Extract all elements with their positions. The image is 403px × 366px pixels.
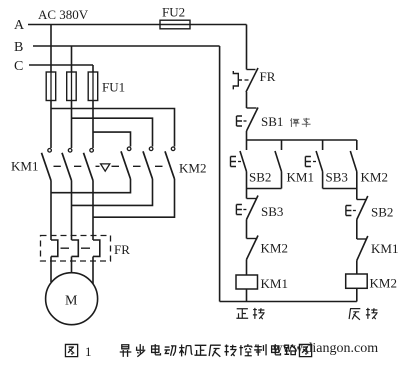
svg-text:SB2: SB2	[249, 170, 271, 185]
coil KM2	[346, 274, 368, 288]
caption 制	[254, 344, 266, 356]
wire KM1 aux down	[281, 172, 283, 189]
SB1 actuator E	[237, 116, 243, 126]
wire tap A to KM2 pole3	[51, 109, 175, 147]
mechanical linkage dashes	[54, 165, 163, 167]
merge branch2	[323, 188, 357, 190]
caption 正	[194, 345, 206, 355]
wire SB3 NC to KM2 NC	[246, 220, 248, 239]
wire KM1 pole1 down	[50, 181, 52, 241]
wire KM2 pole3 crossover to C-out	[93, 179, 175, 217]
motor M circle	[46, 273, 98, 325]
wire line C	[29, 64, 93, 66]
caption 异	[120, 344, 312, 357]
FR actuator bracket	[233, 71, 242, 89]
thermal relay FR dashed box	[41, 236, 111, 262]
wire line A	[28, 24, 247, 26]
FR heater element 1	[51, 240, 58, 256]
svg-text:KM1: KM1	[371, 241, 398, 256]
wire SB2 NC to KM1 NC	[356, 220, 358, 240]
KM2 pole2 contact	[149, 147, 153, 151]
wire FR to SB1	[246, 92, 248, 108]
wire tap C to KM2 pole1	[93, 132, 131, 146]
KM1 pole2 contact	[68, 149, 72, 153]
wire KM2 NC to coil KM1	[246, 260, 248, 276]
wire KM2 aux down	[356, 172, 358, 189]
svg-text:M: M	[65, 294, 78, 309]
caption 图	[65, 344, 77, 356]
wire line B	[33, 45, 220, 47]
wire phase A to KM1 pole1	[50, 101, 52, 149]
wire SB3 down	[322, 172, 324, 189]
merge branch1	[247, 188, 282, 190]
svg-text:C: C	[14, 59, 23, 74]
KM1 NO aux stub	[281, 140, 283, 150]
wire FR to motor W	[92, 257, 94, 285]
label 正转 (forward)	[236, 308, 264, 319]
fuse FU1 a	[46, 72, 56, 101]
wire tap B to KM2 pole2	[72, 118, 153, 146]
wire coil KM2 to bottom bus	[356, 288, 358, 301]
KM1 NO aux blade	[275, 151, 282, 172]
SB2 actuator E	[346, 206, 352, 216]
KM2 pole3 contact	[171, 147, 175, 151]
caption 图 (2)	[299, 344, 311, 356]
svg-text:KM2: KM2	[361, 170, 388, 185]
wire B drop to FU1b	[71, 46, 73, 72]
wire C drop to FU1c	[92, 65, 94, 72]
caption 电 (2)	[272, 344, 281, 355]
KM2 NO aux blade	[350, 151, 357, 172]
wire FR to motor V	[71, 257, 73, 274]
svg-text:KM1: KM1	[287, 170, 314, 185]
SB3 NO button stub	[322, 140, 324, 150]
caption 机	[179, 344, 192, 356]
wire KM1 NC to coil KM2	[356, 261, 358, 275]
caption 控	[239, 344, 251, 356]
wire coil KM1 to bottom bus	[246, 289, 248, 302]
KM2 NO aux stub	[356, 140, 358, 150]
FR heater element 2	[72, 240, 79, 256]
svg-text:A: A	[14, 18, 25, 33]
svg-text:KM2: KM2	[261, 241, 288, 256]
svg-text:SB1: SB1	[261, 114, 283, 129]
wire KM2 pole1 crossover to A-out	[51, 179, 131, 193]
wire KM1 pole3 down	[92, 181, 94, 241]
linkage triangle	[101, 164, 110, 171]
wire FR to motor U	[50, 257, 52, 283]
left return rail from line B	[219, 46, 221, 302]
FR heater element 3	[93, 240, 100, 256]
caption 电	[152, 344, 161, 355]
wire KM2 pole2 crossover to B-out	[72, 179, 153, 205]
label 停车 (stop)	[291, 118, 311, 127]
wire phase B to KM1 pole2	[71, 101, 73, 149]
svg-text:B: B	[14, 40, 23, 55]
svg-text:1: 1	[85, 344, 92, 359]
svg-text:FR: FR	[114, 242, 130, 257]
svg-text:KM1: KM1	[261, 276, 288, 291]
caption 路	[284, 344, 295, 354]
svg-text:KM2: KM2	[370, 276, 397, 291]
wire KM1 pole2 down	[71, 181, 73, 241]
KM1 pole3 contact	[90, 149, 94, 153]
stop button SB1 NC	[247, 107, 257, 109]
fuse FU2	[160, 20, 190, 29]
SB3 NC interlock button	[247, 198, 257, 200]
wire SB1 to bus	[246, 131, 248, 140]
svg-text:FR: FR	[260, 69, 276, 84]
wire phase C to KM1 pole3	[92, 101, 94, 149]
KM2 pole1 contact	[127, 147, 131, 151]
SB2 actuator E	[231, 157, 237, 167]
FR NC contact (control)	[247, 69, 256, 71]
caption 反	[209, 345, 221, 357]
caption 步	[136, 344, 145, 357]
svg-text:AC 380V: AC 380V	[38, 7, 89, 22]
FR element linkage dashes	[61, 247, 91, 249]
wire A drop to FU1a	[50, 25, 52, 73]
SB3 actuator E	[305, 157, 311, 167]
wire to SB2 NC	[356, 189, 358, 200]
wire to SB3 NC	[246, 189, 248, 199]
wire FU2 to control rail	[246, 25, 248, 70]
svg-text:SB2: SB2	[371, 205, 393, 220]
control bottom bus	[220, 301, 357, 303]
SB3 actuator E	[236, 205, 242, 215]
SB2 NO blade	[240, 151, 247, 172]
SB2 NC interlock button	[357, 199, 367, 201]
svg-text:FU2: FU2	[162, 5, 185, 20]
svg-text:SB3: SB3	[326, 170, 348, 185]
caption 动	[164, 346, 176, 356]
svg-text:KM1: KM1	[11, 159, 38, 174]
KM1 pole1 contact	[48, 149, 52, 153]
KM1 NC interlock contact	[357, 238, 367, 240]
svg-text:KM2: KM2	[179, 161, 206, 176]
SB3 NO blade	[316, 151, 323, 172]
svg-text:FU1: FU1	[102, 80, 125, 95]
control top bus	[247, 139, 357, 141]
KM2 NC interlock contact	[247, 238, 258, 240]
wire SB2 down	[246, 172, 248, 189]
SB2 NO button stub	[246, 140, 248, 150]
svg-text:SB3: SB3	[261, 204, 283, 219]
fuse FU1 c	[88, 72, 98, 101]
label 反转 (reverse)	[349, 308, 378, 320]
caption 转	[224, 344, 236, 356]
fuse FU1 b	[67, 72, 77, 101]
coil KM1	[236, 275, 258, 289]
